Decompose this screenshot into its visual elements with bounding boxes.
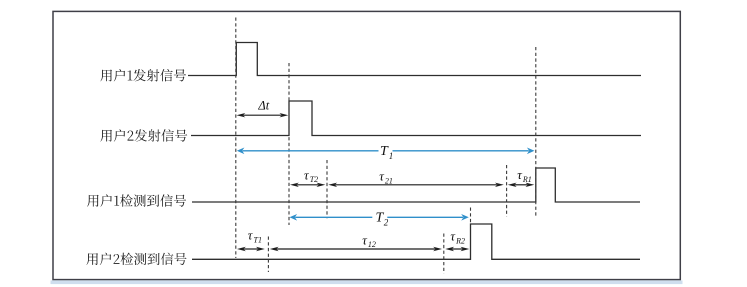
arrow tau_R1 bbox=[514, 184, 527, 186]
arrow Delta t bbox=[243, 114, 282, 116]
wire: user1 detected signal with pulse bbox=[192, 168, 640, 202]
arrow tau_21 bbox=[335, 184, 497, 186]
svg-text:12: 12 bbox=[368, 240, 376, 249]
svg-text:2: 2 bbox=[384, 217, 389, 227]
dashed line at user2 pulse rise bbox=[288, 63, 290, 225]
dashed line tau_21/tau_R1 boundary bbox=[506, 165, 508, 217]
arrow tau_T2 bbox=[297, 184, 319, 186]
arrow tau_12 bbox=[276, 248, 435, 250]
wire: user2 transmit signal with pulse bbox=[191, 101, 641, 136]
svg-text:R1: R1 bbox=[522, 175, 532, 184]
arrow tau_R2 bbox=[452, 248, 463, 250]
arrow T1 (blue) bbox=[243, 150, 379, 152]
text label user1 transmit (Chinese) bbox=[100, 69, 186, 81]
svg-text:Δt: Δt bbox=[257, 99, 269, 113]
svg-text:T: T bbox=[380, 144, 389, 159]
svg-text:R2: R2 bbox=[455, 237, 465, 246]
dashed line above user2 detect pulse rise bbox=[470, 208, 472, 225]
text label user1 detect (Chinese) bbox=[87, 194, 186, 206]
frame bottom shadow bbox=[51, 280, 683, 284]
frame border bbox=[53, 11, 680, 279]
svg-text:T1: T1 bbox=[254, 235, 262, 244]
text label user2 detect (Chinese) bbox=[86, 253, 186, 265]
arrow T2 (blue) bbox=[295, 216, 372, 218]
dashed line tau_T1/tau_12 boundary bbox=[267, 237, 269, 273]
svg-text:1: 1 bbox=[389, 151, 394, 161]
text label user2 transmit (Chinese) bbox=[100, 129, 187, 141]
wire: user2 detected signal with pulse bbox=[192, 224, 640, 259]
wire: user1 transmit signal with pulse bbox=[188, 43, 641, 76]
arrow tau_T1 bbox=[244, 248, 259, 250]
svg-text:21: 21 bbox=[385, 176, 393, 185]
dashed line tau_12/tau_R2 boundary bbox=[443, 234, 445, 274]
dashed line at user1 pulse rise bbox=[235, 18, 237, 259]
dashed line tau_T2/tau_21 boundary bbox=[326, 160, 328, 218]
svg-text:T2: T2 bbox=[310, 175, 318, 184]
dashed line at user1 detect pulse rise bbox=[535, 47, 537, 216]
